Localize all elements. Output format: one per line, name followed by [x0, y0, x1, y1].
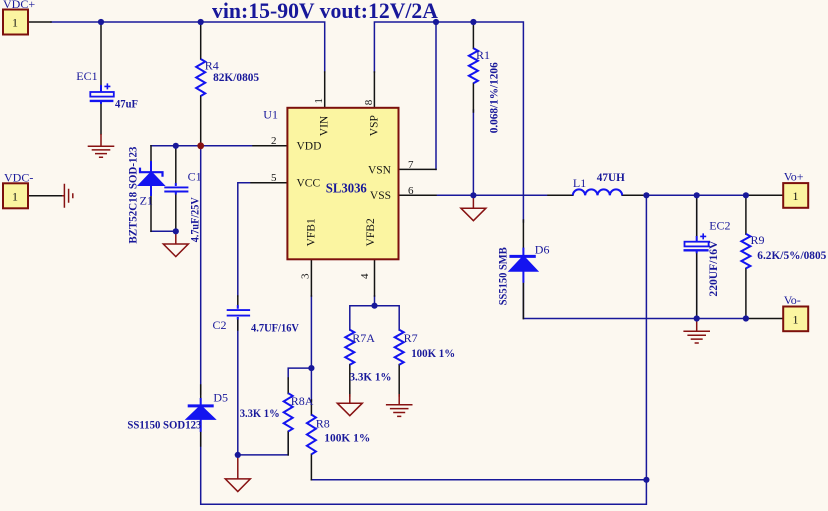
svg-text:5: 5	[271, 172, 277, 184]
capacitor C1 plates	[164, 187, 188, 191]
port VDC- box	[3, 183, 28, 208]
svg-text:6: 6	[408, 185, 414, 197]
svg-text:220UF/16V: 220UF/16V	[706, 240, 720, 296]
pin R9 top	[745, 196, 747, 234]
svg-text:VSP: VSP	[369, 115, 381, 136]
svg-text:C1: C1	[188, 170, 202, 184]
wire vo+ row	[646, 194, 747, 196]
pin U1-5	[251, 182, 287, 184]
junction C1 bottom	[173, 228, 179, 234]
pin U1-7	[399, 168, 437, 170]
svg-text:100K 1%: 100K 1%	[324, 431, 370, 445]
pin C2 bottom	[237, 319, 239, 331]
ground earth EC2	[683, 319, 710, 343]
svg-text:SS1150 SOD123: SS1150 SOD123	[127, 418, 201, 432]
svg-text:47uF: 47uF	[115, 96, 138, 110]
junction pin3 R8A	[308, 365, 314, 371]
svg-text:3.3K 1%: 3.3K 1%	[350, 369, 392, 383]
svg-text:3.3K 1%: 3.3K 1%	[240, 406, 280, 420]
junction R8 row	[643, 477, 649, 483]
diode D5	[188, 404, 214, 407]
junction EC2 top	[694, 192, 700, 198]
pin R7 bottom	[398, 365, 400, 396]
svg-text:0.068/1%/1206: 0.068/1%/1206	[487, 62, 501, 133]
svg-text:VDD: VDD	[297, 141, 322, 153]
svg-text:Vo-: Vo-	[784, 293, 801, 307]
pin U1-3	[310, 259, 312, 296]
wire ec2 col	[696, 195, 698, 236]
pin EC1 top	[100, 23, 102, 85]
svg-text:VFB2: VFB2	[365, 218, 377, 246]
pin EC2 top	[696, 196, 698, 236]
svg-text:1: 1	[12, 190, 18, 204]
svg-text:100K 1%: 100K 1%	[411, 346, 455, 360]
resistor R9	[741, 234, 750, 268]
svg-text:4.7uF/25V: 4.7uF/25V	[187, 197, 201, 242]
ground triangle C1	[163, 231, 188, 256]
wire r8a top	[288, 368, 311, 379]
svg-text:2: 2	[271, 135, 277, 147]
svg-text:1: 1	[793, 189, 799, 203]
wire vcc line	[238, 183, 251, 296]
junction pin4	[371, 303, 377, 309]
pin Z1 bottom	[150, 196, 152, 231]
svg-text:4: 4	[359, 273, 371, 279]
pin C1 bottom	[175, 193, 177, 231]
svg-text:SS5150 SMB: SS5150 SMB	[496, 247, 510, 305]
pin R1 top	[472, 23, 474, 48]
ground earth R7	[386, 394, 413, 416]
svg-text:R8: R8	[316, 417, 330, 431]
ground triangle VSS	[461, 196, 486, 221]
pin D5 bottom	[200, 432, 202, 447]
svg-text:C2: C2	[213, 318, 227, 332]
wire r7a r7 row	[350, 306, 399, 330]
pin R8 bottom	[310, 400, 312, 480]
junction rail VSN	[433, 19, 439, 25]
resistor R7A	[345, 330, 354, 365]
wire z1 bottom	[151, 230, 176, 232]
junction R9 top	[743, 192, 749, 198]
svg-text:3: 3	[300, 273, 312, 279]
svg-text:47UH: 47UH	[597, 170, 626, 184]
pin L1 right	[622, 194, 646, 196]
svg-text:vin:15-90V vout:12V/2A: vin:15-90V vout:12V/2A	[212, 0, 439, 23]
wire pin3 to r8	[310, 296, 312, 401]
resistor R8	[307, 415, 316, 455]
pin U1-4	[374, 259, 376, 296]
svg-text:82K/0805: 82K/0805	[213, 70, 259, 84]
pin U1-1	[324, 72, 326, 108]
junction C1 top	[173, 143, 179, 149]
ground earth EC1	[88, 134, 115, 157]
wire vss row	[436, 194, 549, 196]
svg-text:U1: U1	[263, 108, 278, 122]
ground triangle R7A	[337, 394, 362, 416]
zener Z1	[140, 168, 163, 177]
resistor R8A	[284, 393, 293, 431]
pin D6 top	[522, 220, 524, 248]
svg-text:BZT52C18 SOD-123: BZT52C18 SOD-123	[126, 147, 140, 244]
resistor R7	[395, 330, 404, 365]
svg-text:6.2K/5%/0805: 6.2K/5%/0805	[757, 248, 826, 262]
svg-text:VDC-: VDC-	[4, 170, 33, 184]
ground triangle C2	[225, 456, 250, 492]
svg-text:4.7UF/16V: 4.7UF/16V	[251, 320, 299, 334]
pin L1 left	[548, 194, 573, 196]
pin R9 bottom	[745, 268, 747, 318]
inductor L1	[573, 189, 622, 195]
svg-text:L1: L1	[573, 176, 586, 190]
junction C2 bottom	[235, 452, 241, 458]
svg-text:R7A: R7A	[352, 331, 375, 345]
capacitor EC1 plates	[100, 85, 102, 92]
pin U1-6	[399, 194, 437, 196]
pin D5 top	[200, 385, 202, 399]
junction L1 out	[643, 192, 649, 198]
svg-text:EC1: EC1	[76, 69, 97, 83]
junction rail EC1	[98, 19, 104, 25]
wire top rail right	[374, 22, 523, 222]
junction rail R4	[198, 19, 204, 25]
ground earth VDC- rotated	[62, 184, 73, 208]
wire top rail left	[51, 22, 325, 72]
wire r8 bottom row	[311, 479, 646, 481]
wire c2 lower	[237, 319, 239, 455]
pin C1 top	[175, 146, 177, 184]
pin vdc-	[28, 195, 62, 197]
svg-text:R9: R9	[751, 233, 765, 247]
capacitor C2 plates	[227, 310, 250, 316]
svg-text:1: 1	[313, 98, 325, 104]
svg-text:1: 1	[12, 16, 18, 30]
pin R7A bottom	[349, 365, 351, 396]
svg-text:1: 1	[793, 312, 799, 326]
wire r1 lower	[472, 110, 474, 195]
pin U1-2	[253, 145, 287, 147]
svg-text:R8A: R8A	[291, 394, 314, 408]
resistor R4	[196, 59, 205, 96]
svg-text:R7: R7	[404, 331, 418, 345]
svg-text:VSN: VSN	[368, 164, 392, 176]
wire d5 column	[200, 146, 202, 394]
capacitor EC2 plus	[700, 233, 706, 239]
svg-text:Z1: Z1	[140, 193, 153, 207]
svg-text:Vo+: Vo+	[784, 169, 804, 183]
pin vo+	[746, 194, 783, 196]
svg-text:D6: D6	[535, 242, 550, 256]
port Vo- box	[783, 307, 808, 332]
junction R9 bottom	[743, 315, 749, 321]
svg-text:7: 7	[408, 159, 414, 171]
pin R1 bottom	[472, 83, 474, 112]
wire vdd line	[151, 145, 253, 147]
pin R4 bottom	[200, 96, 202, 145]
svg-text:D5: D5	[213, 391, 228, 405]
capacitor EC2 plates	[696, 236, 698, 241]
wire d5 to bottom	[201, 195, 647, 504]
pin R8A ends	[287, 378, 289, 455]
pin D6 bottom	[522, 282, 524, 319]
wire vo- row2	[523, 318, 747, 320]
svg-text:VCC: VCC	[297, 178, 321, 190]
pin R4 top	[200, 23, 202, 59]
wire pin4 node	[374, 296, 376, 306]
pin Z1 top	[150, 146, 152, 162]
svg-text:VDC+: VDC+	[3, 0, 35, 11]
wire c2 to r8a	[238, 432, 288, 455]
svg-text:SL3036: SL3036	[326, 181, 367, 196]
wire vo- row	[522, 283, 524, 319]
pin EC2 bottom	[696, 252, 698, 318]
junction VDD R4 red	[197, 142, 204, 149]
wire vsn up	[435, 22, 437, 169]
junction EC2 bottom	[694, 315, 700, 321]
capacitor EC1 plus	[104, 83, 110, 89]
wire ec2 col lower	[696, 252, 698, 319]
svg-text:VFB1: VFB1	[306, 218, 318, 246]
port VDC+ box	[3, 10, 28, 35]
svg-text:VSS: VSS	[370, 190, 391, 202]
ic U1 SL3036 body	[287, 108, 398, 259]
junction rail R1	[470, 19, 476, 25]
svg-text:EC2: EC2	[709, 218, 730, 232]
port Vo+ box	[783, 183, 808, 208]
pin EC1 bottom	[100, 103, 102, 134]
svg-text:8: 8	[363, 99, 375, 105]
diode D6	[509, 255, 535, 258]
resistor R1	[469, 48, 478, 83]
junction VSS R1	[470, 192, 476, 198]
svg-text:VIN: VIN	[319, 115, 331, 136]
pin U1-8	[373, 72, 375, 108]
pin vo-	[746, 318, 783, 320]
pin C2 top	[237, 296, 239, 307]
svg-text:R1: R1	[476, 48, 490, 62]
WIRES-NAVY	[51, 22, 747, 504]
pin vdc+	[28, 21, 51, 23]
